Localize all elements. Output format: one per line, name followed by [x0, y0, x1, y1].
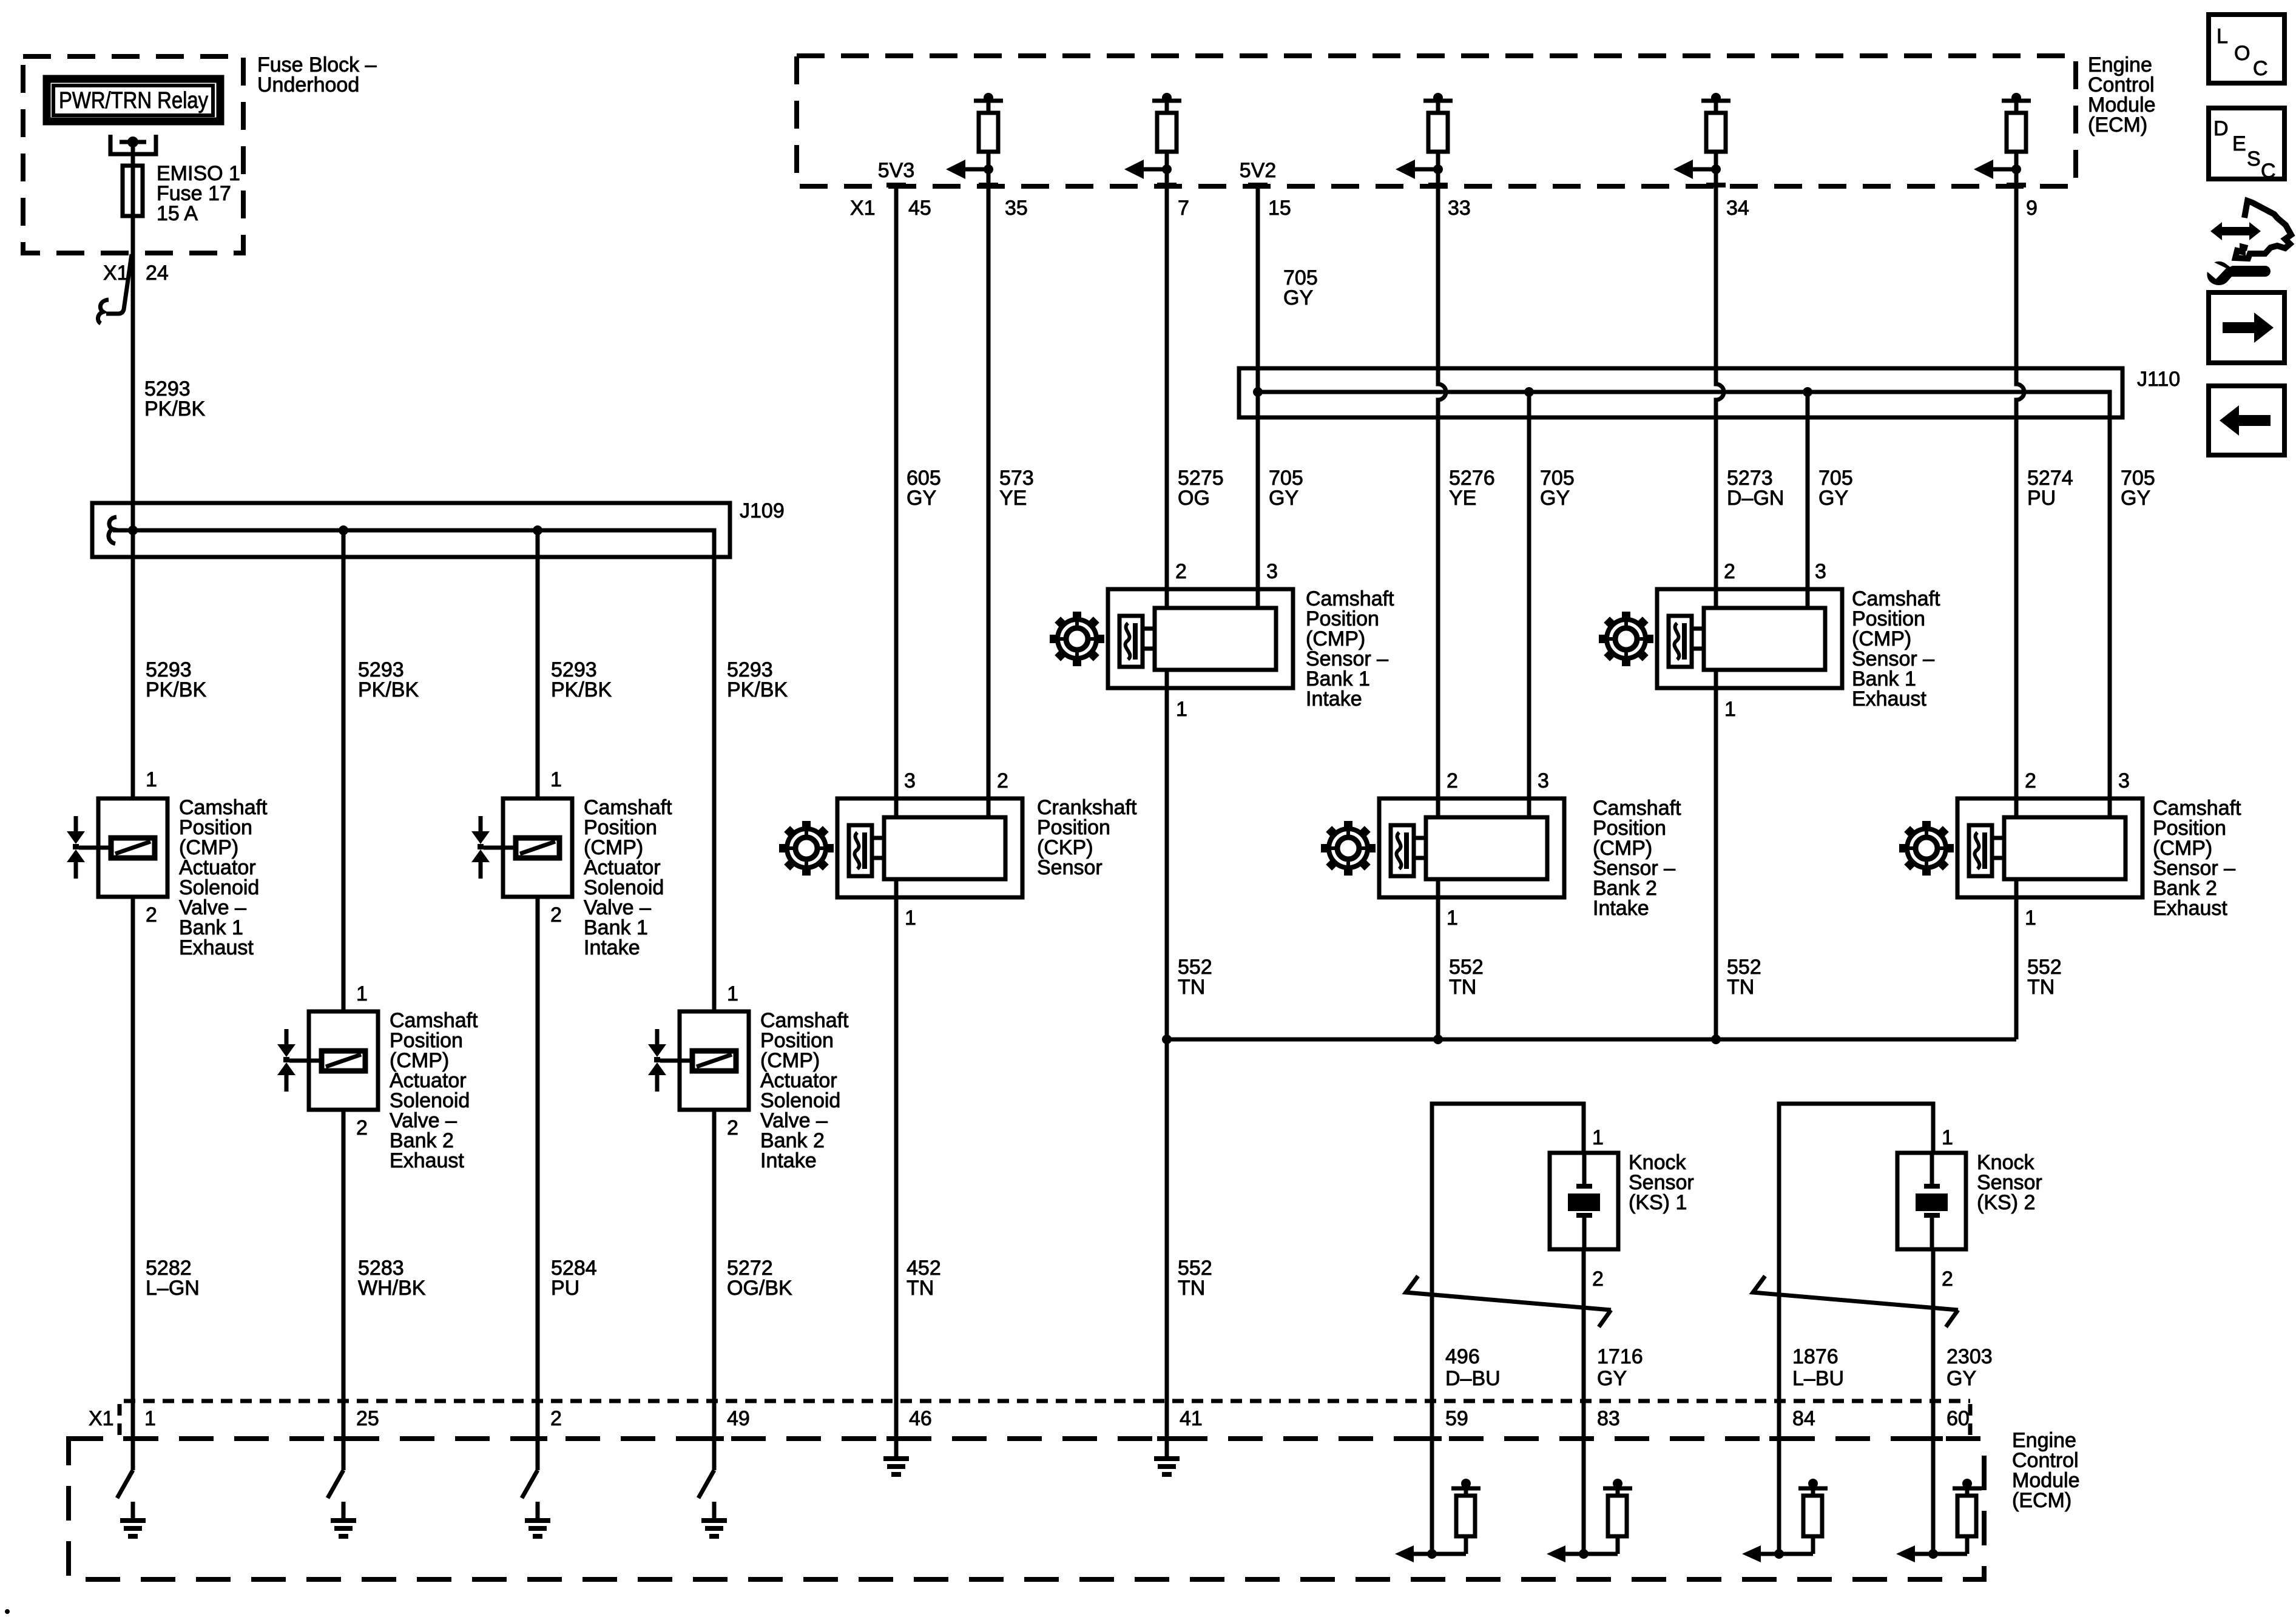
svg-text:TN: TN [907, 1277, 934, 1300]
wire label row: 573 YE [999, 467, 1034, 510]
wire label 552 TN (B2 exhaust) [2027, 956, 2062, 999]
svg-text:OG/BK: OG/BK [727, 1277, 792, 1300]
CMP sensor Bank 2 Intake [1321, 769, 1681, 930]
svg-text:GY: GY [1283, 286, 1313, 309]
wire 705 GY J110 to CMP B2 intake pin3 [1527, 392, 1531, 817]
wire label 5283 WH/BK [358, 1257, 426, 1300]
wire column 3 from J109 [536, 530, 540, 798]
CMP actuator solenoid valve Bank 2 Intake [648, 982, 849, 1172]
svg-text:C: C [2261, 160, 2276, 183]
svg-text:2: 2 [356, 1116, 368, 1139]
wire CMP B2 intake pin1 to 552 bus [1436, 879, 1440, 1039]
svg-text:1: 1 [905, 906, 916, 930]
svg-text:Exhaust: Exhaust [2153, 897, 2227, 920]
svg-text:WH/BK: WH/BK [358, 1277, 426, 1300]
ground G pin25 [331, 1502, 356, 1536]
wire label row: 705 GY [1540, 467, 1575, 510]
ground G pin1 [120, 1502, 146, 1536]
relay output terminal connector [110, 135, 156, 154]
CMP sensor Bank 1 Exhaust [1599, 560, 1940, 721]
wire label 5284 PU [551, 1257, 597, 1300]
svg-text:(ECM): (ECM) [2012, 1489, 2071, 1512]
svg-text:GY: GY [1540, 487, 1570, 510]
svg-text:1: 1 [1176, 698, 1187, 721]
svg-text:2: 2 [1175, 560, 1187, 583]
svg-text:1716: 1716 [1597, 1345, 1643, 1368]
svg-text:PU: PU [551, 1277, 579, 1300]
icon back arrow box [2209, 386, 2284, 455]
svg-text:L–GN: L–GN [146, 1277, 200, 1300]
svg-text:Sensor: Sensor [1037, 856, 1102, 879]
svg-text:83: 83 [1597, 1407, 1620, 1430]
svg-text:Exhaust: Exhaust [179, 936, 254, 959]
ECM internal switch pin49 [698, 1470, 714, 1498]
svg-text:2: 2 [1447, 769, 1458, 792]
svg-text:Intake: Intake [1593, 897, 1649, 920]
wire CMP B2 exhaust pin1 to 552 bus [2014, 879, 2019, 1039]
wire column4 below actuator [712, 1110, 717, 1470]
wire label 5293 PK/BK (top) [144, 377, 205, 420]
connector ticks at ECM top pins [886, 183, 2026, 187]
svg-text:S: S [2247, 147, 2261, 170]
svg-text:(ECM): (ECM) [2088, 113, 2147, 137]
wire from relay through fuse to J109 [131, 142, 135, 798]
svg-text:84: 84 [1792, 1407, 1815, 1430]
svg-text:Intake: Intake [760, 1149, 817, 1172]
connector plane X1 dotted line [124, 1399, 1970, 1403]
fuse F17 EMISO 1 15A [123, 162, 240, 225]
wire column 2 from J109 [342, 530, 346, 1011]
wire 2303 GY KS2 pin2 to ECM pin60 [1931, 1249, 1936, 1554]
svg-text:C: C [2253, 57, 2268, 80]
wire label row: 5273 D-GN [1727, 467, 1784, 510]
svg-text:L–BU: L–BU [1792, 1367, 1844, 1390]
svg-text:41: 41 [1180, 1407, 1203, 1430]
wire label 552 TN (B2 intake) [1449, 956, 1484, 999]
svg-text:1: 1 [1724, 698, 1736, 721]
svg-text:PK/BK: PK/BK [551, 678, 612, 701]
wire 5273 D-GN pin34 to CMP B1 exhaust (hop at J110) [1716, 185, 1724, 608]
wire label 1876 L-BU [1792, 1345, 1844, 1390]
svg-text:25: 25 [356, 1407, 379, 1430]
svg-text:3: 3 [1815, 560, 1826, 583]
svg-text:496: 496 [1445, 1345, 1480, 1368]
ECM top box [797, 53, 2156, 186]
svg-text:GY: GY [1597, 1367, 1627, 1390]
svg-text:2: 2 [550, 1407, 562, 1430]
wire 705 GY pin15 to J110 [1256, 185, 1260, 392]
svg-text:Exhaust: Exhaust [1852, 687, 1926, 711]
knock sensor KS2 loop wire [1779, 1104, 1933, 1554]
svg-text:60: 60 [1947, 1407, 1970, 1430]
svg-text:(KS) 1: (KS) 1 [1629, 1191, 1687, 1214]
wire column2 below actuator [342, 1110, 346, 1470]
wire label row: 705 GY [2121, 467, 2155, 510]
svg-text:9: 9 [2026, 197, 2038, 220]
svg-text:33: 33 [1448, 197, 1471, 220]
svg-text:D: D [2213, 117, 2229, 140]
CMP actuator solenoid valve Bank 1 Exhaust [67, 768, 268, 959]
wire column3 below actuator [536, 897, 540, 1470]
ECM internal switch pin1 [117, 1470, 133, 1498]
ECM internal switch pin2 [522, 1470, 538, 1498]
svg-text:1: 1 [146, 768, 157, 791]
CMP actuator solenoid valve Bank 2 Exhaust [277, 982, 478, 1172]
wire 605 GY pin45 to CKP [894, 185, 899, 817]
CMP sensor Bank 1 Intake [1050, 560, 1394, 721]
connector X1 pin 24 symbol [98, 254, 168, 323]
wire 705 GY J110 to CMP B1 exhaust pin3 [1806, 392, 1810, 608]
wire 5274 PU pin9 to CMP B2 exhaust (hop at J110) [2016, 185, 2024, 817]
svg-text:L: L [2217, 25, 2228, 48]
ECM internal resistor network pin 59 [1395, 1479, 1481, 1562]
svg-text:49: 49 [727, 1407, 750, 1430]
svg-text:2: 2 [727, 1116, 738, 1139]
svg-text:46: 46 [909, 1407, 932, 1430]
wire CMP B1 exhaust pin1 to 552 bus [1714, 670, 1718, 1039]
svg-text:1: 1 [1592, 1126, 1604, 1149]
svg-text:15 A: 15 A [157, 202, 198, 225]
wire label 5282 L-GN [146, 1257, 200, 1300]
ground G pin49 [701, 1502, 727, 1536]
wire 552 TN CMP B1 intake pin1 to ECM pin41 [1165, 670, 1169, 1456]
svg-text:TN: TN [1178, 1277, 1205, 1300]
svg-text:TN: TN [1727, 976, 1754, 999]
wire label 496 D-BU [1445, 1345, 1501, 1390]
relay K1 PWR/TRN Relay [47, 79, 220, 121]
wire 5276 YE pin33 to CMP B2 intake (hop at J110) [1438, 185, 1446, 817]
wire column 4 from J109 [712, 557, 717, 1011]
svg-text:45: 45 [908, 197, 931, 220]
wire column1 below actuator [131, 897, 135, 1470]
knock sensor KS1 [1550, 1126, 1694, 1291]
connector ticks at ECM bottom pins [123, 1436, 1943, 1441]
twisted pair symbol KS2 [1753, 1276, 1958, 1327]
svg-text:PK/BK: PK/BK [727, 678, 788, 701]
svg-text:PK/BK: PK/BK [146, 678, 206, 701]
ECM internal pull-up resistor pin 9 [1974, 93, 2031, 185]
icon wiring repair (arrow + harness + wrench) [2207, 201, 2291, 285]
svg-text:34: 34 [1726, 197, 1749, 220]
svg-text:1: 1 [727, 982, 738, 1005]
svg-text:TN: TN [2027, 976, 2055, 999]
svg-text:PK/BK: PK/BK [144, 397, 205, 420]
connector X1 end tick left [118, 1404, 122, 1436]
svg-text:59: 59 [1445, 1407, 1468, 1430]
ECM internal switch pin25 [328, 1470, 343, 1498]
svg-text:GY: GY [907, 487, 936, 510]
svg-text:1: 1 [356, 982, 368, 1005]
ECM internal pull-up resistor pin 35 [946, 93, 1003, 185]
icon DESC box [2209, 108, 2284, 183]
svg-text:3: 3 [1538, 769, 1549, 792]
svg-text:Intake: Intake [584, 936, 640, 959]
wire 573 YE pin35 to CKP [987, 185, 991, 817]
svg-text:O: O [2234, 42, 2250, 65]
svg-text:OG: OG [1178, 487, 1210, 510]
svg-text:X1: X1 [103, 262, 129, 285]
svg-text:1876: 1876 [1792, 1345, 1838, 1368]
fuse block underhood box [23, 53, 377, 253]
wire label row: 5275 OG [1178, 467, 1224, 510]
splice pack J110 [1239, 368, 2180, 817]
svg-text:2: 2 [1942, 1268, 1953, 1291]
ground G pin41 [1154, 1440, 1180, 1474]
wire label row: 5276 YE [1449, 467, 1495, 510]
wire label 552 TN (B1 exhaust) [1727, 956, 1761, 999]
wire label 452 TN [907, 1257, 941, 1300]
wire 5275 OG pin7 to CMP B1 intake [1165, 185, 1169, 608]
svg-text:24: 24 [146, 262, 169, 285]
svg-text:2303: 2303 [1947, 1345, 1993, 1368]
svg-text:7: 7 [1178, 197, 1189, 220]
svg-text:2: 2 [1724, 560, 1735, 583]
svg-text:GY: GY [2121, 487, 2150, 510]
svg-text:Exhaust: Exhaust [390, 1149, 464, 1172]
wire 452 TN CKP pin1 to ECM pin46 [894, 879, 899, 1456]
CKP sensor (Crankshaft Position) [779, 769, 1137, 930]
svg-text:2: 2 [550, 903, 562, 927]
svg-text:J109: J109 [740, 499, 785, 522]
svg-text:Intake: Intake [1306, 687, 1362, 711]
svg-text:5V2: 5V2 [1240, 159, 1277, 182]
knock sensor KS2 [1897, 1126, 2042, 1291]
svg-text:1: 1 [1942, 1126, 1953, 1149]
svg-text:PU: PU [2027, 487, 2056, 510]
svg-text:(KS) 2: (KS) 2 [1977, 1191, 2035, 1214]
svg-text:Underhood: Underhood [257, 73, 359, 96]
svg-text:D–BU: D–BU [1445, 1367, 1501, 1390]
ECM internal pull-up resistor pin 33 [1396, 93, 1453, 185]
svg-text:2: 2 [146, 903, 157, 927]
wire label 1716 GY [1597, 1345, 1643, 1390]
wire label 552 TN (to pin41) [1178, 1257, 1212, 1300]
svg-text:2: 2 [997, 769, 1008, 792]
svg-text:J110: J110 [2137, 368, 2180, 391]
svg-text:D–GN: D–GN [1727, 487, 1784, 510]
svg-text:1: 1 [550, 768, 562, 791]
svg-text:TN: TN [1178, 976, 1205, 999]
svg-text:GY: GY [1818, 487, 1848, 510]
ECM internal resistor network pin 84 [1742, 1479, 1828, 1562]
svg-text:YE: YE [1449, 487, 1476, 510]
svg-text:35: 35 [1005, 197, 1028, 220]
ECM internal pull-up resistor pin 7 [1124, 93, 1181, 185]
svg-text:3: 3 [1266, 560, 1278, 583]
wire label 5293 PK/BK col2 [358, 658, 419, 701]
svg-text:PK/BK: PK/BK [358, 678, 419, 701]
ground G pin46 [883, 1440, 909, 1474]
svg-text:E: E [2232, 132, 2246, 155]
wire label 705 GY (above J110) [1283, 266, 1318, 309]
wire label row: 5274 PU [2027, 467, 2073, 510]
ECM bottom box [69, 1429, 2080, 1579]
wire label 5293 PK/BK col3 [551, 658, 612, 701]
icon LOC box [2209, 15, 2284, 83]
ground G pin2 [525, 1502, 550, 1536]
wire 705 GY J110 to CMP B1 intake pin3 [1256, 392, 1260, 608]
connector X1 end tick right [1968, 1404, 1973, 1436]
wire label 5293 PK/BK col1 [146, 658, 206, 701]
page mark dot [5, 1609, 10, 1614]
wire label 5272 OG/BK [727, 1257, 792, 1300]
svg-text:2: 2 [1592, 1268, 1604, 1291]
icon forward arrow box [2209, 292, 2284, 363]
ECM internal resistor network pin 83 [1547, 1479, 1632, 1562]
svg-text:X1: X1 [850, 197, 876, 220]
svg-text:GY: GY [1269, 487, 1298, 510]
svg-text:PWR/TRN Relay: PWR/TRN Relay [59, 88, 208, 113]
ECM internal pull-up resistor pin 34 [1673, 93, 1730, 185]
svg-text:TN: TN [1449, 976, 1476, 999]
svg-text:1: 1 [1447, 906, 1458, 930]
svg-text:1: 1 [2025, 906, 2036, 930]
svg-text:X1: X1 [89, 1407, 114, 1430]
svg-text:1: 1 [144, 1407, 156, 1430]
splice pack J109 [92, 499, 785, 557]
wire label row: 705 GY [1269, 467, 1303, 510]
wire 1716 GY KS1 pin2 to ECM pin83 [1582, 1249, 1586, 1554]
CMP actuator solenoid valve Bank 1 Intake [471, 768, 672, 959]
ECM internal resistor network pin 60 [1896, 1479, 1982, 1562]
svg-text:3: 3 [904, 769, 916, 792]
svg-text:2: 2 [2025, 769, 2036, 792]
wire label 552 TN (B1 intake) [1178, 956, 1212, 999]
svg-text:GY: GY [1947, 1367, 1976, 1390]
CMP sensor Bank 2 Exhaust [1899, 769, 2241, 930]
knock sensor KS1 loop wire [1432, 1104, 1584, 1554]
twisted pair symbol KS1 [1406, 1276, 1611, 1327]
wire label row: 705 GY [1818, 467, 1853, 510]
svg-text:3: 3 [2118, 769, 2130, 792]
svg-text:5V3: 5V3 [878, 159, 915, 182]
wire label 2303 GY [1947, 1345, 1993, 1390]
wire label 5293 PK/BK col4 [727, 658, 788, 701]
wire label row: 605 GY [907, 467, 941, 510]
552 TN common bus wire [1162, 1035, 2016, 1044]
svg-text:15: 15 [1268, 197, 1291, 220]
svg-text:YE: YE [999, 487, 1027, 510]
